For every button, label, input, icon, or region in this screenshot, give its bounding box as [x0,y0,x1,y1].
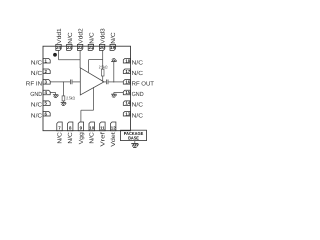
svg-text:14: 14 [125,101,130,106]
wire: package base to ground [134,141,136,144]
pin 7 pad [57,122,62,131]
svg-text:N/C: N/C [57,131,64,143]
resistor R2 (Vdd3 to output) [101,69,104,76]
wire: GND stub down [55,93,57,95]
svg-text:N/C: N/C [132,112,144,119]
amplifier A1 [80,68,104,95]
svg-text:17: 17 [125,69,130,74]
pin 14 pad [123,101,130,106]
svg-text:Vref: Vref [99,132,106,147]
wire: branch down to amplifier top edge [88,60,90,73]
pin 21 pad [88,44,93,50]
wire: pin20 line to R2 [102,60,104,70]
ground (output shunt, inverted) [111,59,117,62]
svg-text:2.5kΩ: 2.5kΩ [99,64,108,69]
svg-text:24: 24 [56,45,61,50]
svg-text:19: 19 [110,45,115,50]
wire: R2 down to output line [102,76,104,82]
ground (input shunt R1) [61,103,66,106]
wire: Vgg up to amplifier bottom edge [93,87,95,110]
pin 23 pad [67,44,72,50]
svg-text:16: 16 [125,80,130,85]
svg-text:N/C: N/C [132,102,144,109]
svg-text:N/C: N/C [31,102,43,109]
wire: Vgg pin 9 up [80,110,82,122]
svg-text:Vdd1: Vdd1 [56,28,63,44]
resistor R1 (input shunt) [62,96,65,101]
svg-text:Vdd3: Vdd3 [100,28,107,44]
svg-text:RF OUT: RF OUT [132,81,155,88]
package outline U1 [43,46,131,131]
pin 11 pad [100,122,105,131]
wire: C1 to amplifier input [72,81,80,83]
wire: output junction up to ground [113,62,115,82]
svg-text:N/C: N/C [67,32,74,44]
svg-text:N/C: N/C [67,131,74,143]
pin 4 pad [43,90,50,95]
wire: GND stub down (right) [113,93,115,95]
ground (package base) [131,144,138,148]
pin 24 pad [56,44,61,50]
svg-text:11: 11 [100,125,105,130]
svg-text:23: 23 [67,45,72,50]
svg-text:15: 15 [125,90,130,95]
svg-text:Vdet: Vdet [110,132,117,147]
pin 19 pad [110,44,115,50]
svg-text:12: 12 [111,125,116,130]
svg-text:13: 13 [125,111,130,116]
package base box [121,130,147,140]
pin 1 marker dot [53,53,57,57]
svg-text:N/C: N/C [31,70,43,77]
pin 18 pad [123,58,130,63]
wire: Vdd1 pin 24 stub down [58,50,60,60]
capacitor C2 (output DC block) [106,80,108,85]
svg-text:2.5kΩ: 2.5kΩ [66,95,75,100]
node: output shunt junction [113,81,114,82]
pin 1 pad [43,58,50,63]
wire: junction down to R1 [62,82,64,96]
pin 2 pad [43,69,50,74]
pin 12 pad [111,122,116,131]
wire: Vdd2 pin 22 down to amplifier top corner [79,50,81,68]
pin 6 pad [43,111,50,116]
svg-text:18: 18 [125,58,130,63]
pin 20 pad [99,44,104,50]
wire: Vdd3 pin 20 stub down [102,50,104,59]
pin 8 pad [68,122,73,131]
svg-text:Vdd2: Vdd2 [78,28,85,44]
wire: C2 to pin 16 RF OUT [108,81,123,83]
pin 9 pad [78,122,83,131]
wire: R1 to ground [62,101,64,103]
wire: Vgg horizontal [81,109,94,111]
svg-text:N/C: N/C [31,59,43,66]
svg-text:22: 22 [78,45,83,50]
svg-text:N/C: N/C [31,112,43,119]
svg-text:GND: GND [30,91,43,98]
pin 15 pad [123,90,130,95]
svg-text:21: 21 [88,45,93,50]
wire: RF IN from pin 3 to C1 [50,81,70,83]
svg-text:Vgg: Vgg [78,132,85,144]
svg-text:RF IN: RF IN [26,81,42,88]
wire: pin 4 GND stub [50,92,55,94]
svg-text:20: 20 [100,45,105,50]
svg-text:N/C: N/C [110,32,117,44]
svg-text:BASE: BASE [128,135,139,140]
pin 22 pad [77,44,82,50]
svg-text:N/C: N/C [89,131,96,143]
pin 5 pad [43,101,50,106]
pin 10 pad [89,122,94,131]
ground (pin 4 GND) [53,95,59,98]
svg-text:N/C: N/C [132,59,144,66]
wire: Vdd1 horizontal to Vdd2 line [59,59,81,61]
wire: Vdd3 branch left [89,59,103,61]
capacitor C1 (input DC block) [70,80,72,85]
wire: amplifier output to C2 [104,81,106,83]
pin 13 pad [123,111,130,116]
svg-text:N/C: N/C [132,70,144,77]
svg-text:10: 10 [89,125,94,130]
wire: pin 15 GND stub [114,92,123,94]
svg-text:GND: GND [132,91,145,98]
svg-text:N/C: N/C [88,32,95,44]
pin 3 pad [43,80,50,85]
node: input shunt junction [63,81,64,82]
pin 17 pad [123,69,130,74]
ground (pin 15 GND) [111,94,117,97]
pin 16 pad [123,80,130,85]
